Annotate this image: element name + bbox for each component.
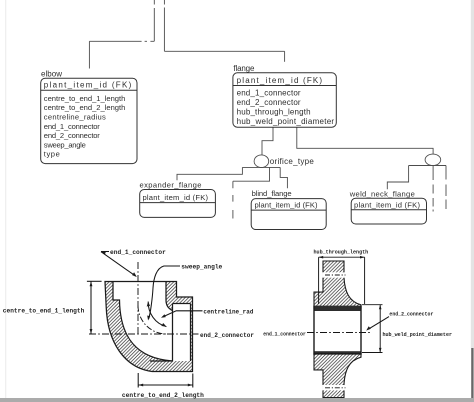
svg-text:plant_item_id (FK): plant_item_id (FK) bbox=[237, 76, 323, 85]
elbow bore (white) bbox=[113, 282, 173, 362]
svg-text:weld_neck_flange: weld_neck_flange bbox=[349, 190, 415, 199]
right light strip bbox=[471, 0, 474, 348]
wire: branch to dashed stub bbox=[233, 167, 270, 181]
entity weld_neck_flange bbox=[349, 190, 427, 224]
wire: flange drop bbox=[284, 51, 286, 62]
svg-text:blind_flange: blind_flange bbox=[252, 189, 292, 198]
svg-text:type: type bbox=[44, 150, 60, 159]
sweep angle arc with arrows bbox=[148, 302, 166, 327]
category underline bbox=[242, 166, 280, 168]
wire: branch to weld_neck_flange bbox=[387, 166, 408, 190]
upper stub break band bbox=[322, 272, 345, 277]
wire: flange bottom to left circle bbox=[262, 127, 273, 155]
category circle right bbox=[409, 154, 446, 165]
lower stub break band bbox=[322, 385, 345, 390]
svg-text:centre_to_end_2_length: centre_to_end_2_length bbox=[44, 103, 126, 112]
svg-text:end_2_connector: end_2_connector bbox=[237, 98, 301, 107]
svg-text:centre_to_end_2_length: centre_to_end_2_length bbox=[122, 392, 204, 399]
dashed line below right circle center bbox=[432, 166, 434, 212]
wire: top dashed vertical L1 bbox=[153, 0, 155, 41]
svg-text:centreline_rad: centreline_rad bbox=[203, 308, 253, 315]
svg-text:plant_item_id (FK): plant_item_id (FK) bbox=[44, 81, 132, 90]
svg-text:hub_weld_point_diameter: hub_weld_point_diameter bbox=[237, 117, 335, 126]
wire: top dashed vertical L2 bbox=[163, 0, 165, 51]
svg-text:centreline_radius: centreline_radius bbox=[44, 113, 106, 122]
centerline vertical (dash-dot) bbox=[137, 262, 139, 335]
svg-text:end_2_connector: end_2_connector bbox=[389, 311, 433, 317]
wire: elbow drop bbox=[88, 41, 90, 68]
disc (white middle) bbox=[314, 309, 361, 354]
category circle left (orifice_type) bbox=[242, 155, 314, 168]
left faint line bbox=[5, 0, 6, 398]
dashed stub below bbox=[232, 181, 234, 218]
svg-text:plant_item_id (FK): plant_item_id (FK) bbox=[354, 200, 420, 209]
svg-text:sweep_angle: sweep_angle bbox=[181, 264, 222, 271]
elbow material (hatched) bbox=[105, 282, 193, 372]
svg-text:expander_flange: expander_flange bbox=[140, 181, 202, 190]
svg-text:orifice_type: orifice_type bbox=[270, 157, 315, 166]
entity expander_flange bbox=[140, 181, 216, 218]
svg-text:flange: flange bbox=[233, 64, 255, 73]
svg-text:plant_item_id (FK): plant_item_id (FK) bbox=[255, 201, 318, 210]
svg-text:end_2_connector: end_2_connector bbox=[200, 332, 254, 339]
svg-text:hub_through_length: hub_through_length bbox=[237, 108, 311, 117]
svg-text:end_2_connector: end_2_connector bbox=[44, 131, 100, 140]
wire: horizontal to elbow (dashed near corner) bbox=[89, 40, 154, 42]
right strip dark bottom bbox=[471, 348, 473, 398]
bottom gray bar bbox=[0, 398, 474, 402]
elbow outline strokes bbox=[105, 282, 193, 372]
wire: branch to expander_flange bbox=[177, 167, 242, 180]
entity flange bbox=[233, 64, 336, 127]
svg-text:end_1_connector: end_1_connector bbox=[110, 249, 166, 256]
entity elbow bbox=[41, 69, 137, 163]
centerline horizontal (dash-dot) bbox=[89, 333, 199, 335]
upper material bbox=[314, 261, 361, 309]
entity blind_flange bbox=[251, 189, 326, 229]
wire: flange bottom to right circle bbox=[297, 127, 433, 154]
wire: horizontal to flange bbox=[164, 50, 284, 52]
dimension: hub_weld_point_diameter (vertical at right) bbox=[362, 304, 383, 306]
wire: branch to blind_flange bbox=[280, 167, 287, 188]
svg-text:centre_to_end_1_length: centre_to_end_1_length bbox=[44, 94, 126, 103]
dashed line below underline right end bbox=[445, 166, 447, 210]
svg-text:sweep_angle: sweep_angle bbox=[44, 140, 86, 149]
svg-text:hub_weld_point_diameter: hub_weld_point_diameter bbox=[383, 332, 453, 338]
lower material bbox=[314, 354, 361, 398]
svg-text:hub_through_length: hub_through_length bbox=[314, 249, 369, 255]
svg-text:elbow: elbow bbox=[41, 69, 62, 78]
svg-text:end_1_connector: end_1_connector bbox=[44, 122, 100, 131]
svg-text:centre_to_end_1_length: centre_to_end_1_length bbox=[3, 308, 85, 315]
svg-text:end_1_connector: end_1_connector bbox=[263, 331, 306, 337]
svg-text:end_1_connector: end_1_connector bbox=[237, 89, 301, 98]
centerline arc (dash-dot) bbox=[138, 306, 167, 335]
svg-text:plant_item_id (FK): plant_item_id (FK) bbox=[143, 193, 209, 202]
